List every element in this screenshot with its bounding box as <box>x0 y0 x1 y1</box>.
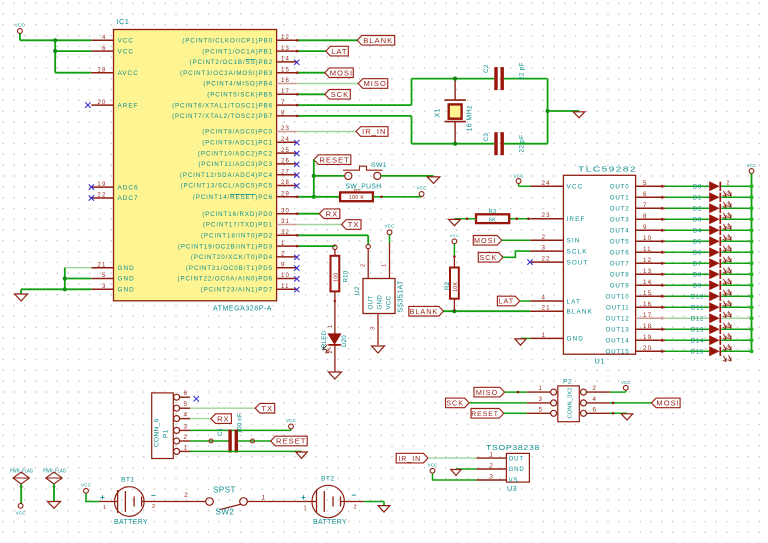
wire LED D9 to rail <box>721 284 751 286</box>
U1 pin 5 stub <box>636 185 665 187</box>
wire LAT to U1 <box>520 300 531 302</box>
LED D6 emission arrows <box>723 256 731 262</box>
resistor R3 <box>476 214 509 223</box>
wire LED D6 to rail <box>721 251 751 253</box>
wire OUT3 to LED D3 <box>665 218 709 220</box>
ground D20 <box>328 372 341 379</box>
IC1 pin 21 stub <box>91 267 113 269</box>
svg-text:RESET: RESET <box>319 155 349 164</box>
junction rail D11 <box>750 305 754 309</box>
junction rail D14 <box>750 338 754 342</box>
IC1 pin 24 stub <box>277 141 298 143</box>
wire OUT14 to LED D14 <box>665 339 709 341</box>
IC1 pin 26 stub <box>277 163 298 165</box>
wire LED D11 to rail <box>721 306 751 308</box>
U1 pin 10 stub <box>636 240 665 242</box>
U1 pin 9 stub <box>636 229 665 231</box>
wire OUT11 to LED D11 <box>665 306 709 308</box>
junction rail D12 <box>750 316 754 320</box>
svg-text:SW1: SW1 <box>371 162 387 169</box>
svg-text:1: 1 <box>542 332 547 339</box>
wire MISO to P2 pin1 <box>505 391 527 393</box>
wire pin30 to RX <box>297 213 319 215</box>
label IR_IN at U3 <box>396 453 428 463</box>
junction R2-BLANK <box>452 309 456 313</box>
svg-text:21: 21 <box>97 262 106 268</box>
wire pin32 to U2 <box>297 234 368 236</box>
svg-text:SS351AT: SS351AT <box>398 280 405 313</box>
svg-text:GND: GND <box>118 265 135 272</box>
U1 pin 23 stub <box>530 218 563 220</box>
wire R10 to D20 <box>334 291 336 334</box>
wire SW2 to BT2 <box>247 501 303 503</box>
LED D5 emission arrows <box>723 245 731 251</box>
capacitor C2 <box>494 67 497 90</box>
svg-text:(PCINT10/ADC2)PC2: (PCINT10/ADC2)PC2 <box>198 150 273 157</box>
svg-text:BLANK: BLANK <box>567 309 593 316</box>
svg-text:TSOP38238: TSOP38238 <box>486 443 540 452</box>
LED D9 <box>709 280 719 290</box>
svg-text:100 nF: 100 nF <box>237 413 244 433</box>
wire to pin6 <box>55 50 91 52</box>
IC1 pin 5 stub <box>91 278 113 280</box>
IC1 pin 31 stub <box>277 224 298 226</box>
svg-text:VCC: VCC <box>513 174 524 179</box>
no-connect <box>294 60 299 65</box>
svg-text:(PCINT0/CLKO/ICP1)PB0: (PCINT0/CLKO/ICP1)PB0 <box>182 38 273 45</box>
svg-text:VCC: VCC <box>747 163 757 168</box>
svg-text:(PCINT21/OC0B/T1)PD5: (PCINT21/OC0B/T1)PD5 <box>186 265 273 272</box>
svg-text:1: 1 <box>281 241 286 247</box>
svg-text:(PCINT11/ADC3)PC3: (PCINT11/ADC3)PC3 <box>198 161 273 168</box>
IC1 pin 7 stub <box>277 104 298 106</box>
IC1 pin 3 stub <box>91 288 113 290</box>
wire LED D0 to rail <box>721 185 751 187</box>
wire pin29 to R1 <box>297 196 340 198</box>
svg-text:U2: U2 <box>354 286 361 295</box>
LED D2 emission arrows <box>723 212 731 218</box>
svg-text:1: 1 <box>382 264 388 267</box>
wire vertical VCC branch <box>54 40 56 72</box>
no-connect AREF <box>85 102 90 107</box>
svg-text:D11: D11 <box>691 306 704 312</box>
junction rail D7 <box>750 261 754 265</box>
wire LED D13 to rail <box>721 328 751 330</box>
wire OUT15 to LED D15 <box>665 350 709 352</box>
U2 GND lead <box>377 314 379 346</box>
no-connect <box>294 151 299 156</box>
U1 pin 20 stub <box>636 350 665 352</box>
ground U3 <box>451 470 461 476</box>
wire GND pin3 <box>21 288 91 290</box>
svg-text:D3: D3 <box>693 218 702 224</box>
U2 VCC lead <box>389 235 391 243</box>
wire GND pin21 (pale) <box>65 267 92 269</box>
U1 pin 22 stub <box>530 261 563 263</box>
svg-text:19: 19 <box>643 334 652 341</box>
svg-text:SOUT: SOUT <box>567 259 589 266</box>
LED D14 <box>709 335 719 345</box>
svg-text:100: 100 <box>334 272 340 282</box>
wire LED D5 to rail <box>721 240 751 242</box>
svg-text:(PCINT6/XTAL1/TOSC1)PB6: (PCINT6/XTAL1/TOSC1)PB6 <box>172 102 273 109</box>
no-connect <box>294 265 299 270</box>
wire crystal left up <box>411 79 413 106</box>
svg-text:SCK: SCK <box>480 253 498 262</box>
label BLANK near U2 <box>409 306 444 316</box>
power VCC symbol top-left <box>18 29 23 34</box>
U3 pin 1 lead <box>477 457 507 459</box>
svg-text:GND: GND <box>118 276 135 283</box>
no-connect SOUT <box>527 259 532 264</box>
no-connect P1 pin6 <box>194 396 199 401</box>
ground BT2 <box>378 506 390 512</box>
svg-text:1: 1 <box>184 444 188 451</box>
svg-text:4: 4 <box>102 35 107 41</box>
op-amp U? main MCU IC1 body <box>114 30 277 301</box>
svg-text:D12: D12 <box>691 317 704 323</box>
LED D8 emission arrows <box>723 278 731 284</box>
wire pin15 to MOSI <box>297 72 325 74</box>
IC1 pin 10 stub <box>277 278 298 280</box>
svg-text:RESET: RESET <box>471 411 499 418</box>
P1 pad pin 3 <box>174 427 180 433</box>
svg-text:GND: GND <box>118 287 135 294</box>
LED D12 <box>709 313 719 323</box>
svg-text:IRLED: IRLED <box>321 330 328 350</box>
svg-text:1: 1 <box>262 495 266 502</box>
svg-text:MOSI: MOSI <box>656 399 679 408</box>
IC1 pin 29 stub <box>277 196 298 198</box>
ground U1 <box>515 339 526 345</box>
svg-text:MOSI: MOSI <box>330 68 353 77</box>
svg-text:3: 3 <box>184 423 188 430</box>
junction crystal top <box>453 77 457 81</box>
svg-text:12: 12 <box>281 35 290 41</box>
ground right of SW1 <box>427 177 440 184</box>
ground P1 <box>296 452 307 458</box>
wire GND stub U1 <box>521 337 531 339</box>
svg-text:1: 1 <box>103 505 106 511</box>
svg-text:SW2: SW2 <box>216 508 235 517</box>
LED D0 emission arrows <box>723 190 731 196</box>
svg-text:(PCINT20/XCK/T0)PD4: (PCINT20/XCK/T0)PD4 <box>191 254 273 261</box>
junction GND pin5 <box>63 276 67 280</box>
svg-text:22 pF: 22 pF <box>519 135 526 153</box>
label RESET mid <box>314 155 351 165</box>
wire pin17 to SCK <box>297 93 325 95</box>
junction crystal bottom <box>453 142 457 146</box>
svg-text:SCK: SCK <box>331 90 350 99</box>
wire LED D15 to rail <box>721 350 751 352</box>
svg-text:VCC: VCC <box>416 186 427 191</box>
IC1 pin 25 stub <box>277 152 298 154</box>
svg-text:2: 2 <box>593 385 597 392</box>
P1 pad pin 2 <box>174 438 180 444</box>
wire switch right to ground <box>381 175 434 177</box>
wire crystal bottom rail right <box>504 143 548 145</box>
svg-text:BLANK: BLANK <box>410 307 439 316</box>
svg-text:(PCINT22/OC0A/AIN0)PD6: (PCINT22/OC0A/AIN0)PD6 <box>178 276 273 283</box>
label TX <box>342 220 362 230</box>
power VCC right of R1 <box>421 195 423 198</box>
LED D6 <box>709 247 719 257</box>
IC1 pin 19 stub <box>91 186 113 188</box>
LED D7 emission arrows <box>723 267 731 273</box>
svg-text:RESET: RESET <box>276 437 306 446</box>
svg-text:4: 4 <box>184 412 188 419</box>
svg-text:U3: U3 <box>507 484 517 493</box>
svg-text:3: 3 <box>539 396 543 403</box>
power VCC above R2 <box>452 239 457 244</box>
svg-text:CONN_6: CONN_6 <box>154 418 161 447</box>
svg-text:GND: GND <box>567 336 585 343</box>
label IR_IN <box>356 127 388 137</box>
svg-text:1: 1 <box>328 325 334 328</box>
svg-text:R2: R2 <box>444 281 451 290</box>
svg-text:(PCINT23/AIN1)PD7: (PCINT23/AIN1)PD7 <box>201 287 273 294</box>
junction rail D3 <box>750 217 754 221</box>
wire IR_IN to U3 (pale) <box>428 457 477 459</box>
junction at VCC branch pin4 <box>53 38 57 42</box>
svg-text:2: 2 <box>184 434 188 441</box>
connector P2 body <box>558 386 580 422</box>
svg-text:C1: C1 <box>217 427 224 436</box>
wire MOSI to SIN <box>502 239 531 241</box>
svg-text:IREF: IREF <box>567 216 586 223</box>
wire P1 pin1 to ground <box>190 450 302 452</box>
svg-text:OUT2: OUT2 <box>610 206 630 213</box>
U1 pin 3 stub <box>530 250 563 252</box>
svg-text:U1: U1 <box>595 357 605 366</box>
svg-text:28: 28 <box>281 180 290 186</box>
junction RESET-pin29 <box>312 195 316 199</box>
IC1 pin 14 stub <box>277 61 298 63</box>
U1 pin 16 stub <box>636 306 665 308</box>
wire BT1 to SW2 <box>156 501 206 503</box>
wire SCK to P2 pin3 <box>469 402 527 404</box>
svg-text:9: 9 <box>643 224 648 231</box>
LED D2 <box>709 203 719 213</box>
svg-text:OUT14: OUT14 <box>606 338 630 345</box>
no-connect <box>294 162 299 167</box>
LED D13 emission arrows <box>723 333 731 339</box>
wire to AVCC pin18 <box>55 72 91 74</box>
svg-text:19: 19 <box>97 182 106 188</box>
svg-text:R10: R10 <box>343 270 350 282</box>
battery BT2 <box>312 485 344 517</box>
svg-text:OUT5: OUT5 <box>610 239 630 246</box>
svg-text:VCC: VCC <box>384 224 395 229</box>
wire OUT10 to LED D10 <box>665 295 709 297</box>
wire GND pin5 <box>65 278 92 280</box>
diode D20 IRLED <box>328 334 340 344</box>
U3 pin 3 lead <box>477 479 507 481</box>
P2 right pad pin 4 <box>581 400 587 406</box>
svg-text:OUT1: OUT1 <box>610 195 630 202</box>
svg-text:32: 32 <box>281 230 290 236</box>
power VCC at P2 <box>623 385 628 390</box>
svg-text:OUT10: OUT10 <box>606 294 630 301</box>
hall sensor U2 body <box>363 279 395 314</box>
LED D9 emission arrows <box>723 289 731 295</box>
svg-text:OUT13: OUT13 <box>606 327 630 334</box>
svg-text:(PCINT7/XTAL2/TOSC2)PB7: (PCINT7/XTAL2/TOSC2)PB7 <box>172 113 273 120</box>
svg-text:2: 2 <box>184 492 188 499</box>
junction RESET-switch <box>312 174 316 178</box>
svg-text:14: 14 <box>643 279 652 286</box>
wire LED D12 to rail <box>721 317 751 319</box>
capacitor C3 <box>494 132 497 155</box>
label SCK <box>325 90 351 100</box>
wire OUT12 to LED D12 <box>665 317 709 319</box>
LED driver U1 TLC59282 body <box>563 175 635 354</box>
svg-text:13: 13 <box>281 46 290 52</box>
label MISO <box>358 79 388 89</box>
IC1 pin 20 stub <box>91 104 113 106</box>
label BLANK <box>357 36 395 46</box>
wire OUT2 to LED D2 <box>665 207 709 209</box>
IC1 pin 15 stub <box>277 72 298 74</box>
wire D20 to ground <box>334 345 336 372</box>
power VCC for U2 <box>387 230 392 235</box>
svg-text:29: 29 <box>281 192 290 198</box>
wire IREF to R3 <box>509 218 530 220</box>
svg-text:6K: 6K <box>489 217 496 223</box>
connector P1 CONN_6 body <box>152 393 174 459</box>
svg-text:VS: VS <box>509 478 519 484</box>
U1 pin 11 stub <box>636 251 665 253</box>
svg-text:(PCINT9/ADC1)PC1: (PCINT9/ADC1)PC1 <box>202 140 273 147</box>
label RX at P1 <box>211 414 232 424</box>
wire VCC to pin4 <box>20 39 91 41</box>
wire OUT6 to LED D6 <box>665 251 709 253</box>
svg-text:VCC: VCC <box>428 463 437 468</box>
ground left of IC1 <box>15 294 28 301</box>
LED D5 <box>709 236 719 246</box>
wire P1 pin5 to TX (pale) <box>190 407 255 409</box>
svg-text:(PCINT16/RXD)PD0: (PCINT16/RXD)PD0 <box>202 211 273 218</box>
wire SCK to SCLK <box>503 251 530 257</box>
IC1 pin 23 stub <box>277 131 298 133</box>
svg-text:1: 1 <box>303 506 306 512</box>
U1 pin 7 stub <box>636 207 665 209</box>
U1 pin 1 stub <box>530 337 563 339</box>
svg-text:OUT8: OUT8 <box>610 272 630 279</box>
svg-text:D20: D20 <box>341 335 348 347</box>
IC1 pin 6 stub <box>91 50 113 52</box>
svg-text:D13: D13 <box>691 328 704 334</box>
LED D7 <box>709 258 719 268</box>
U2 OUT pin circle <box>366 244 370 248</box>
power VCC for U1 <box>519 185 531 187</box>
wire P1 pin3 to VCC <box>190 429 291 431</box>
IC1 pin 8 stub <box>277 115 298 117</box>
svg-text:10: 10 <box>643 235 652 242</box>
svg-text:OUT: OUT <box>368 296 375 310</box>
svg-text:24: 24 <box>281 137 290 143</box>
label RX <box>319 209 340 219</box>
wire crystal top rail right <box>504 78 548 80</box>
U1 pin 18 stub <box>636 328 665 330</box>
svg-text:IR_IN: IR_IN <box>398 456 421 463</box>
svg-text:BATTERY: BATTERY <box>114 519 148 526</box>
wire OUT7 to LED D7 <box>665 262 709 264</box>
svg-text:7: 7 <box>281 100 286 106</box>
wire pin31 to TX (pale) <box>297 224 341 226</box>
svg-text:26: 26 <box>281 159 290 165</box>
svg-text:PWR_FLAG: PWR_FLAG <box>43 469 66 475</box>
junction at VCC branch pin6 <box>53 49 57 53</box>
wire pin1 to R10 <box>297 245 335 247</box>
U3 pin 2 lead <box>477 468 507 470</box>
svg-text:22: 22 <box>97 193 106 199</box>
IC1 pin 12 stub <box>277 39 298 41</box>
svg-text:1: 1 <box>539 385 543 392</box>
wire crystal top rail left <box>412 78 495 80</box>
svg-text:17: 17 <box>281 89 290 95</box>
svg-text:D4: D4 <box>693 229 702 235</box>
no-connect ADC7 <box>89 195 94 200</box>
svg-text:IR_IN: IR_IN <box>362 127 386 136</box>
wire pin13 to LAT <box>297 50 326 52</box>
svg-text:OUT: OUT <box>509 456 524 462</box>
no-connect <box>294 172 299 177</box>
LED D13 <box>709 324 719 334</box>
svg-text:VCC: VCC <box>567 184 584 191</box>
svg-text:2: 2 <box>542 234 547 241</box>
junction crystal right <box>546 109 550 113</box>
svg-text:VCC: VCC <box>81 483 92 488</box>
svg-text:BT2: BT2 <box>321 476 334 483</box>
wire GND drop <box>20 289 22 294</box>
svg-text:17: 17 <box>643 312 652 319</box>
IC1 pin 11 stub <box>277 288 298 290</box>
crystal X1 body <box>444 99 466 101</box>
IC1 pin 16 stub <box>277 83 298 85</box>
svg-text:D14: D14 <box>691 339 704 345</box>
wire to crystal ground <box>548 110 579 112</box>
svg-text:(PCINT2/OC1B/SS)PB2: (PCINT2/OC1B/SS)PB2 <box>190 59 273 66</box>
svg-text:23: 23 <box>281 126 290 132</box>
IC1 pin 13 stub <box>277 50 298 52</box>
svg-text:2: 2 <box>328 350 334 353</box>
P2 right pad pin 6 <box>581 410 587 416</box>
wire P1 pin4 to RX (pale) <box>190 418 211 420</box>
svg-text:LAT: LAT <box>331 47 347 56</box>
svg-text:X1: X1 <box>435 108 442 117</box>
label MOSI <box>325 68 354 78</box>
svg-text:5: 5 <box>539 406 543 413</box>
R10 top pin circle <box>333 245 337 249</box>
IC1 pin 1 stub <box>277 245 298 247</box>
wire BLANK to TLC <box>444 310 531 312</box>
P1 pad pin 1 <box>174 448 180 454</box>
wire GND to U3 <box>456 468 477 470</box>
junction rail D0 <box>750 184 754 188</box>
svg-text:13: 13 <box>643 268 652 275</box>
wire R1 to VCC <box>373 196 422 198</box>
wire P1 pin2 to C1 <box>190 440 229 442</box>
svg-text:18: 18 <box>97 67 106 73</box>
svg-text:2: 2 <box>353 505 356 511</box>
svg-text:4: 4 <box>593 396 597 403</box>
wire U2 OUT drop <box>367 235 369 244</box>
svg-text:−: − <box>151 491 156 501</box>
U1 pin 6 stub <box>636 196 665 198</box>
ground P2 <box>621 414 633 420</box>
svg-text:3: 3 <box>102 284 107 290</box>
